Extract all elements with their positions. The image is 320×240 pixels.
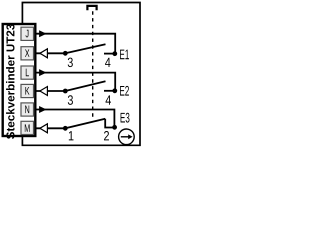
pin label 2 (104, 131, 109, 140)
wire L (row 2 supply) (36, 73, 115, 90)
wire J (row 1 supply) (36, 34, 115, 53)
pin symbol M (input arrow, open) (40, 124, 48, 133)
node E1 junction dot (112, 51, 117, 56)
terminal K (21, 84, 34, 97)
label E2 (120, 86, 129, 96)
switch S2 fixed contact stub (104, 90, 115, 92)
node E2 junction dot (112, 88, 117, 93)
terminal J (21, 27, 34, 40)
pin label 3 (68, 58, 73, 68)
switch S3 blade (closed, contact 1-2) (65, 119, 105, 129)
wire N (row 3 supply) (36, 110, 114, 127)
label E3 (121, 113, 130, 123)
pin symbol L (output arrow) (39, 69, 46, 76)
terminal M (21, 121, 34, 134)
switch S1 blade (open, contact 3-4) (65, 44, 105, 53)
pin label 1 (69, 131, 74, 140)
terminal L (21, 66, 34, 79)
wire M (row 3 switched side) (36, 127, 66, 129)
switch S3 pivot junction (63, 126, 68, 131)
mechanical linkage (dashed line) (92, 11, 94, 119)
wire K (row 2 switched side) (36, 90, 66, 92)
pin label 4 (106, 95, 111, 104)
switch S2 blade (open, contact 3-4) (65, 81, 105, 91)
pin symbol N (output arrow) (39, 106, 46, 113)
terminal block Steckverbinder UT23 (3, 24, 36, 136)
actuator symbol (manual drive) (87, 6, 96, 10)
switch S2 pivot junction (63, 89, 68, 94)
terminal X (21, 47, 34, 60)
pin symbol K (input arrow, open) (40, 87, 48, 96)
label E1 (120, 50, 129, 60)
wire X (row 1 switched side) (36, 52, 66, 54)
switch S3 fixed contact (105, 119, 114, 128)
switch S1 fixed contact stub (104, 53, 115, 55)
pin symbol J (output arrow) (39, 30, 46, 37)
drive E3 (circle with arrow) (119, 129, 135, 145)
enclosure frame (22, 3, 140, 146)
node E3 junction dot (112, 125, 117, 130)
switch S1 pivot junction (63, 51, 68, 56)
pin label 3 (68, 95, 73, 105)
pin label 4 (105, 58, 110, 67)
terminal N (21, 103, 34, 116)
pin symbol X (input arrow, open) (40, 49, 48, 58)
